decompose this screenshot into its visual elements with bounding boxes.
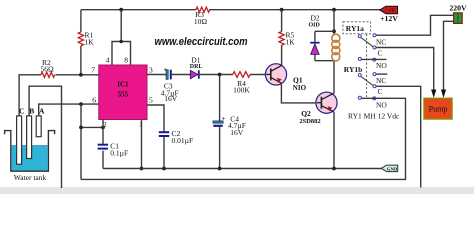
wire: pin 3 output line	[147, 74, 266, 76]
relay contact RY1a	[358, 34, 387, 70]
wire: RY1b NO hold loop to probe line	[81, 98, 406, 179]
svg-text:C: C	[378, 87, 383, 96]
svg-text:220V: 220V	[449, 4, 467, 13]
svg-text:16V: 16V	[230, 128, 244, 137]
svg-text:5: 5	[149, 95, 153, 104]
svg-text:3: 3	[149, 66, 153, 75]
wire: Q2 collector up to relay coil	[333, 61, 335, 93]
svg-text:NO: NO	[376, 100, 387, 109]
svg-text:56Ω: 56Ω	[41, 65, 54, 74]
node: R1/R2/pin7 junction	[79, 73, 83, 77]
node: rail / relay coil junction	[332, 8, 336, 12]
wire: riser to pins 4 and 8 bridge	[112, 10, 131, 65]
node: pin1 / bus junction	[140, 167, 144, 171]
resistor R5 1K (vertical)	[279, 10, 295, 66]
svg-text:C: C	[19, 107, 24, 116]
wire: pin7 line from probe C through R2 to IC	[19, 75, 99, 116]
node: pin6 line junction to hold wire	[79, 102, 83, 106]
power tag +12V	[380, 6, 399, 23]
svg-text:NO: NO	[376, 61, 387, 70]
wire: probe B down off-page	[29, 86, 61, 188]
svg-text:D2: D2	[311, 13, 320, 22]
node: D1 out / R4 / C4 junction	[218, 73, 222, 77]
water fill	[12, 146, 48, 171]
resistor R4 100K	[233, 72, 251, 95]
svg-text:IC1: IC1	[117, 81, 129, 89]
svg-text:www.eleccircuit.com: www.eleccircuit.com	[155, 36, 248, 48]
svg-text:1K: 1K	[286, 38, 296, 47]
svg-text:Q2: Q2	[301, 109, 311, 118]
svg-text:8: 8	[124, 56, 128, 65]
relay coil RY1	[332, 34, 340, 61]
wire: hold wire vertical x=81	[80, 104, 82, 179]
wire: C4 leg down to bus	[219, 75, 221, 169]
node: C4 / bus junction	[218, 167, 222, 171]
resistor R2 56ohm	[41, 58, 55, 77]
pump box	[424, 98, 452, 119]
pump arrow right	[441, 90, 446, 98]
wire: ground bus	[103, 168, 382, 170]
svg-text:C: C	[378, 48, 383, 57]
capacitor C2 0.01uF	[159, 129, 193, 145]
wire: pin 5 stub to C2	[147, 105, 164, 169]
svg-text:RY1a: RY1a	[346, 24, 364, 33]
relay mechanical dashed link	[366, 34, 368, 97]
capacitor C3 4.7uF (polarized)	[161, 68, 179, 103]
wire: RY1b C down off-page	[376, 86, 421, 187]
svg-text:A: A	[39, 107, 45, 116]
wire: Q1 emitter to Q2 base	[281, 83, 317, 103]
svg-text:RY1 MH 12 Vdc: RY1 MH 12 Vdc	[348, 111, 400, 120]
svg-text:B: B	[29, 107, 34, 116]
wire: D2 top connect	[315, 30, 334, 32]
svg-text:Q1: Q1	[293, 76, 303, 85]
svg-text:6: 6	[92, 95, 96, 104]
wire: pin 2 stub down through C1 to ground bus	[102, 120, 104, 169]
svg-text:Pump: Pump	[429, 105, 448, 114]
svg-text:RY1b: RY1b	[344, 65, 363, 74]
wire: D2 bottom connect	[315, 60, 334, 62]
svg-text:NIO: NIO	[293, 84, 307, 92]
node: bridge mid junction	[120, 40, 123, 43]
wire: 220V line2 to pump	[444, 21, 454, 89]
svg-text:GND: GND	[387, 166, 398, 171]
node: pin2 stub / branch junction	[101, 126, 105, 130]
node: rail to 4-8 riser junction	[119, 8, 123, 12]
svg-text:NC: NC	[376, 38, 386, 47]
relay RY1a label dashed box	[343, 22, 371, 34]
wire: Q2 emitter down to bus	[333, 112, 335, 169]
wire: probe A to pin 6	[39, 104, 99, 116]
wire: pin 1 down to ground bus	[141, 120, 143, 169]
probe rod B	[27, 116, 32, 159]
probe rod A	[36, 116, 41, 137]
svg-text:7: 7	[91, 66, 95, 75]
transistor Q2 2SD882	[299, 92, 337, 125]
diode D1 DRL	[190, 56, 203, 79]
220V connector	[449, 4, 467, 24]
wire: +V top rail left segment	[81, 9, 196, 11]
svg-text:Water tank: Water tank	[14, 173, 47, 182]
wire: RY1a C down to pump	[376, 48, 434, 90]
svg-text:OID: OID	[309, 22, 321, 28]
op-amp: IC1 555 timer body	[99, 65, 147, 120]
svg-text:0.01µF: 0.01µF	[172, 136, 194, 145]
node: C2 / bus junction	[162, 167, 166, 171]
svg-text:10Ω: 10Ω	[194, 17, 207, 26]
svg-text:4: 4	[106, 56, 110, 65]
capacitor C4 4.7uF (polarized)	[213, 114, 246, 137]
wire: rail down to coil top node	[333, 10, 335, 35]
svg-text:0.1µF: 0.1µF	[110, 148, 128, 157]
svg-text:16V: 16V	[164, 94, 178, 103]
resistor R1 1K (vertical)	[78, 10, 94, 75]
resistor R3 10ohm (on top rail)	[194, 7, 210, 26]
svg-text:NC: NC	[376, 76, 386, 85]
bottom gray bar	[0, 187, 474, 194]
capacitor C1 0.1uF	[98, 141, 129, 157]
pump arrow left	[431, 90, 436, 98]
probe rod C	[17, 116, 22, 164]
svg-text:1K: 1K	[85, 38, 95, 47]
diode D2 OID (flyback)	[309, 13, 321, 60]
svg-text:+12V: +12V	[380, 14, 398, 23]
wire: +V top rail right segment	[209, 9, 380, 11]
water tank outline	[5, 131, 55, 172]
wire: pin2 branch	[81, 126, 103, 128]
transistor Q1	[265, 64, 306, 92]
node: coil top / D2 junction	[332, 29, 336, 33]
svg-text:DRL: DRL	[190, 64, 203, 70]
relay contact RY1b	[358, 73, 387, 110]
svg-text:100K: 100K	[233, 85, 250, 94]
node: hold wire / pin2 branch junction	[79, 126, 83, 130]
node: rail / R5 junction	[280, 8, 284, 12]
water surface line	[12, 145, 48, 147]
ground tag GND	[381, 165, 398, 171]
node: Q2 emitter / bus junction	[332, 167, 336, 171]
wire: RY1a NC to 220V line1	[376, 15, 453, 35]
svg-text:555: 555	[118, 91, 129, 99]
svg-text:2SD882: 2SD882	[299, 118, 320, 125]
